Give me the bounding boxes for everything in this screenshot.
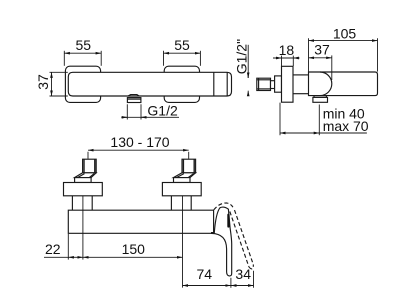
dimension 74 line: [183, 285, 231, 287]
svg-text:18: 18: [279, 42, 295, 58]
dimension 37 front extension lines: [50, 72, 68, 96]
svg-text:74: 74: [197, 266, 213, 282]
plan view eccentric slant left: [75, 173, 97, 178]
side view inlet thread tail G1/2: [257, 78, 271, 90]
plan view lever dashed open position knob: [214, 203, 233, 210]
plan view lever dashed open position blade: [230, 212, 249, 267]
plan view inlet centerline right / cartridge axis extension: [182, 196, 184, 288]
svg-text:37: 37: [314, 42, 330, 58]
dimension 22 line: [44, 256, 68, 258]
front view outlet nub G1/2: [127, 98, 140, 103]
plan view eccentric stub left: [75, 178, 92, 183]
svg-text:22: 22: [45, 241, 61, 257]
dimension 55 right line: [164, 52, 201, 54]
dimension 18 extension lines: [282, 56, 294, 66]
side view body with handle block: [309, 72, 378, 96]
dimension 18 line with outside arrows: [273, 57, 300, 59]
svg-text:105: 105: [333, 25, 357, 41]
side view body cross-section arc: [320, 72, 332, 96]
svg-text:G1/2: G1/2: [147, 102, 178, 118]
side view neck: [271, 81, 275, 89]
front view body cap seam right: [226, 72, 228, 96]
side view connector to body: [293, 74, 309, 76]
dimension 105 extension lines: [309, 38, 378, 71]
dimension 37 side line: [309, 57, 332, 59]
dimension min40 max70 line: [280, 132, 319, 134]
plan view bar: [68, 210, 213, 233]
plan view flange right: [162, 183, 201, 196]
plan view eccentric square left: [83, 159, 97, 173]
plan view neck left: [71, 196, 73, 210]
dimension 55 left extension lines: [64, 51, 101, 66]
dimension 130-170 extension stubs: [88, 152, 189, 159]
plan view inlet centerline left: [82, 196, 84, 260]
front view outlet boss bump: [128, 95, 139, 96]
dimension 130-170 line: [88, 149, 189, 151]
plan view eccentric stub right: [174, 178, 191, 183]
dimension 74 and 34 extension lines: [231, 271, 254, 288]
side view wall plate: [282, 66, 294, 102]
dimension 55 right extension lines: [164, 51, 201, 66]
dimension 22 and 150 extension lines: [67, 234, 69, 260]
plan view flange left: [64, 183, 103, 196]
plan view lever slot black: [227, 214, 229, 228]
svg-text:34: 34: [235, 266, 251, 282]
side view outlet nub: [314, 96, 326, 98]
front view body bar: [68, 72, 231, 96]
svg-text:G1/2": G1/2": [233, 39, 249, 74]
svg-text:37: 37: [35, 74, 51, 90]
dimension 37 front line: [51, 72, 53, 96]
svg-text:130 - 170: 130 - 170: [110, 134, 169, 150]
plan view eccentric slant right: [174, 173, 196, 178]
dimension min40 max70 extension lines: [280, 103, 319, 136]
svg-text:55: 55: [76, 37, 92, 53]
plan view eccentric square right: [182, 159, 196, 173]
svg-text:max 70: max 70: [323, 118, 369, 134]
svg-text:150: 150: [122, 241, 146, 257]
front view body cap seam left: [213, 72, 215, 96]
side view nut: [275, 76, 282, 92]
front view mounting block left: [65, 66, 100, 102]
front view mounting block right: [164, 66, 199, 102]
dimension G1/2 front line with outside arrows: [121, 116, 179, 118]
dimension G1/2 front extension lines: [127, 104, 141, 119]
dimension 105 line: [309, 40, 378, 42]
dimension 55 left line: [64, 52, 101, 54]
dimension 150 line: [83, 256, 183, 258]
svg-text:55: 55: [174, 37, 190, 53]
front view outlet nub collar line: [127, 98, 140, 100]
dimension G1/2 inch side leader and arrows: [247, 45, 249, 96]
plan view neck right: [170, 196, 172, 210]
dimension 34 line: [231, 285, 254, 287]
dimension 37 side extension line: [331, 55, 333, 80]
plan view lever solid: [212, 207, 232, 276]
